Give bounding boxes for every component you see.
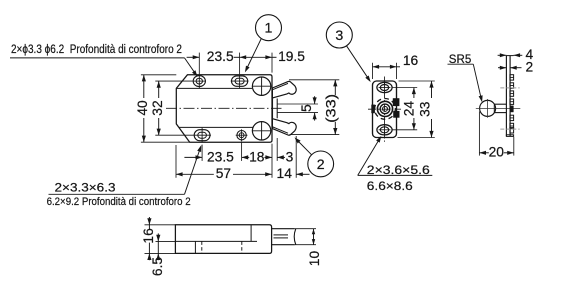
svg-text:33: 33 (417, 101, 432, 117)
balloon 3 (326, 22, 352, 48)
strike plate front view outline (373, 81, 397, 138)
latch side plunger rod (272, 228, 295, 230)
dimension (33) right (289, 79, 339, 81)
dimension 19.5 top (240, 56, 272, 58)
upper claw (272, 81, 296, 98)
svg-text:2×3.6×5.6: 2×3.6×5.6 (367, 163, 430, 177)
strike plate horizontal centerline (368, 108, 401, 110)
svg-text:6.2×9.2 Profondità di controfo: 6.2×9.2 Profondità di controforo 2 (47, 196, 191, 208)
svg-text:2: 2 (317, 157, 325, 173)
dimension 32 left (155, 80, 192, 82)
svg-text:2×ϕ3.3 ϕ6.2 Profondità di con: 2×ϕ3.3 ϕ6.2 Profondità di controforo 2 (11, 42, 182, 56)
hole center marks grey (500, 87, 519, 89)
svg-text:3: 3 (335, 28, 343, 44)
strike plate left tab (371, 105, 375, 114)
dimension 14 (295, 136, 297, 178)
hole bottom-left slot counterbore (194, 130, 210, 141)
svg-text:24: 24 (402, 101, 417, 117)
svg-text:23.5: 23.5 (207, 149, 234, 164)
latch side step vertical (250, 225, 252, 242)
strike plate right tabs (393, 98, 400, 106)
dimension 16 strike plate (372, 63, 374, 79)
dimension 57 (176, 173, 214, 175)
svg-text:6.6×8.6: 6.6×8.6 (367, 179, 413, 193)
screw circle top-right (252, 77, 270, 95)
strike plate top hole (377, 82, 392, 92)
dimension 18 bottom (242, 156, 250, 158)
svg-text:40: 40 (135, 100, 150, 116)
svg-text:5: 5 (299, 104, 314, 112)
svg-text:(33): (33) (324, 94, 339, 123)
svg-text:14: 14 (277, 166, 293, 181)
latch side hidden line 2 (241, 241, 243, 253)
dimension 10 rod (295, 228, 316, 230)
svg-text:20: 20 (489, 145, 505, 160)
svg-text:6.5: 6.5 (150, 257, 165, 277)
svg-text:57: 57 (216, 166, 231, 181)
dimension 6.5 latch side (156, 240, 176, 242)
balloon 1 (256, 15, 282, 41)
dimension 23.5 bottom (201, 145, 203, 161)
hole top-right slot counterbore (232, 76, 248, 86)
screw circle bottom-right (252, 122, 270, 140)
latch body horizontal centerline (166, 107, 282, 109)
lower claw (272, 119, 296, 136)
dimension 16 latch side (145, 224, 176, 226)
dimension 20 strike side (478, 112, 480, 156)
strike side view horizontal centerline (476, 107, 521, 109)
svg-text:18: 18 (249, 149, 265, 164)
pusher block between claws (276, 99, 278, 119)
hole bottom-middle (237, 131, 246, 140)
svg-text:10: 10 (307, 251, 322, 267)
latch body flange line bottom (179, 126, 253, 128)
ball centerline vertical (487, 99, 489, 118)
svg-text:SR5: SR5 (449, 52, 472, 66)
dimension 23.5 top (198, 53, 200, 75)
latch side internal vertical (194, 241, 196, 253)
strike plate side view (505, 55, 507, 136)
ball SR5 (480, 100, 496, 116)
dimension 2 strike side (498, 67, 506, 69)
svg-text:16: 16 (141, 228, 156, 244)
dimension 24 strike plate (392, 87, 417, 89)
dimension 40 left (141, 74, 176, 76)
dimension 4 strike side (498, 54, 507, 56)
strike plate bottom hole (377, 125, 392, 135)
svg-text:23.5: 23.5 (207, 49, 234, 64)
dimension 3 bottom (277, 156, 285, 158)
latch body flange line top (176, 87, 252, 89)
svg-text:32: 32 (150, 100, 165, 115)
latch side hidden line 1 (201, 241, 203, 253)
strike plate side hooks (510, 75, 514, 80)
latch body front view outline (176, 75, 272, 142)
svg-text:2: 2 (525, 60, 533, 75)
svg-text:2×3.3×6.3: 2×3.3×6.3 (55, 180, 116, 194)
strike plate vertical centerline (384, 77, 386, 142)
svg-text:1: 1 (265, 21, 273, 37)
svg-text:3: 3 (286, 149, 294, 164)
ball stem (494, 103, 506, 105)
svg-text:16: 16 (403, 53, 419, 68)
latch side internal line (175, 240, 257, 242)
svg-text:19.5: 19.5 (278, 49, 305, 64)
dimension 33 strike plate (399, 80, 435, 82)
balloon 2 (308, 151, 334, 177)
dimension 5 right (277, 103, 318, 105)
latch side view outline (175, 225, 271, 254)
strike plate ball socket (377, 101, 392, 116)
hole top-left counterbore (193, 76, 205, 87)
